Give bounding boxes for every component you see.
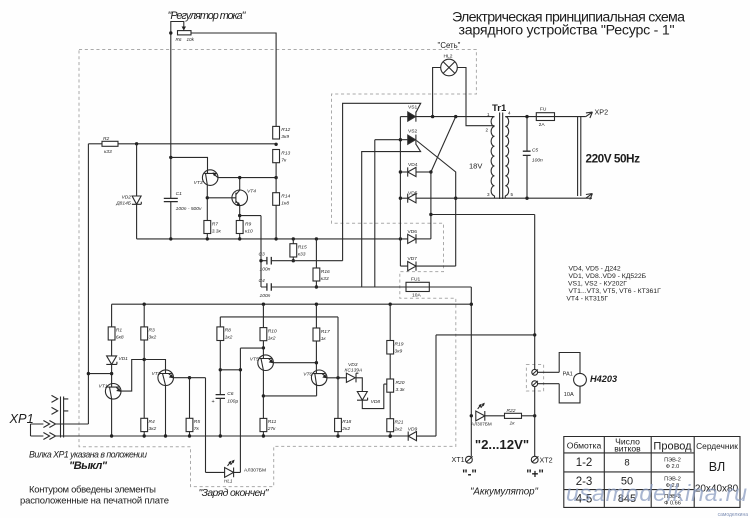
node anode col VD4 — [399, 170, 402, 173]
node VT3-R7-VT4base — [206, 196, 209, 199]
dashed connector box — [526, 365, 543, 392]
svg-text:100µ: 100µ — [227, 399, 238, 405]
transformer Tr1 core — [500, 113, 503, 200]
LED HL1 — [225, 468, 234, 478]
wire XT2 column lower — [534, 387, 536, 457]
svg-text:R20: R20 — [396, 380, 405, 386]
resistor R14 — [273, 193, 280, 206]
wire R8 top link — [220, 316, 338, 318]
svg-text:2к2: 2к2 — [394, 427, 403, 433]
svg-text:1к8: 1к8 — [281, 201, 289, 207]
plug XP1 pin3 arrow — [31, 421, 89, 428]
node R22 right — [533, 414, 536, 417]
svg-text:3.3к: 3.3к — [396, 387, 406, 393]
svg-text:VT1...VT3, VT5, VT6 - КТ361Г: VT1...VT3, VT5, VT6 - КТ361Г — [569, 288, 662, 295]
resistor R8 — [217, 327, 224, 341]
wire VT4 emitter down — [239, 206, 241, 221]
svg-text:R5: R5 — [194, 419, 201, 425]
node C3 left — [259, 259, 262, 262]
node pin1 diag — [454, 115, 457, 118]
node R2-VD2 — [135, 142, 138, 145]
bus junction dots — [143, 303, 146, 306]
terminal XT2 — [531, 456, 538, 463]
svg-text:10А: 10А — [564, 392, 574, 398]
plug XP1 pin1 arrow — [52, 395, 69, 402]
resistor R11 — [260, 418, 267, 431]
resistor R7 — [204, 221, 211, 234]
wire VS1 anode — [400, 116, 407, 118]
svg-text:2А: 2А — [539, 122, 546, 128]
node R16 bottom — [315, 285, 318, 288]
svg-text:3.3к: 3.3к — [212, 228, 222, 234]
svg-text:3к2: 3к2 — [149, 426, 157, 432]
svg-text:XT1: XT1 — [452, 455, 465, 464]
wire left drop x88 — [87, 144, 89, 424]
transistor VT4 — [232, 190, 248, 206]
svg-text:ВЛ: ВЛ — [709, 460, 725, 474]
svg-text:"Выкл": "Выкл" — [69, 460, 108, 472]
svg-text:Ф 2.0: Ф 2.0 — [666, 464, 680, 470]
node pot left — [169, 31, 172, 34]
svg-text:VT4: VT4 — [247, 188, 256, 194]
node pin3 col — [454, 197, 457, 200]
wire sense line — [436, 334, 535, 336]
resistor R15 — [290, 244, 297, 257]
transistor VT3 — [202, 170, 218, 186]
wire VT6 emitter loop — [263, 385, 316, 396]
plug XP1 pin2 arrow — [52, 407, 69, 414]
wire VT1 emitter — [111, 399, 113, 436]
wire FU1 right to output column — [429, 287, 471, 456]
svg-text:VD1, VD8..VD9 - КД522Б: VD1, VD8..VD9 - КД522Б — [569, 273, 647, 280]
svg-text:VT5: VT5 — [250, 356, 259, 362]
svg-text:HL2: HL2 — [444, 54, 453, 60]
svg-text:Д814Б: Д814Б — [115, 201, 132, 207]
svg-text:VD5: VD5 — [408, 190, 418, 196]
fuse FU — [536, 113, 554, 121]
winding table columns — [604, 437, 694, 508]
svg-text:VD4: VD4 — [408, 162, 418, 168]
wire pin1 to PA1 — [538, 371, 560, 373]
resistor R4 — [141, 418, 148, 431]
svg-text:R4: R4 — [149, 419, 156, 425]
wire mid rail — [137, 238, 408, 240]
wire VT4 emitter tap right — [240, 216, 261, 287]
svg-text:1к: 1к — [510, 421, 516, 427]
resistor R21 — [387, 419, 394, 432]
svg-text:VT2: VT2 — [152, 371, 161, 377]
svg-text:2к2: 2к2 — [341, 426, 350, 432]
svg-text:+: + — [212, 399, 215, 405]
terminal XT1 — [466, 456, 473, 463]
svg-text:R12: R12 — [281, 127, 290, 133]
svg-text:Провод: Провод — [653, 441, 692, 453]
resistor R3 — [141, 327, 148, 340]
node R8-C6 — [219, 368, 222, 371]
svg-text:R17: R17 — [321, 329, 330, 335]
diode VD4 — [408, 167, 416, 176]
node VS1 anode col top — [399, 138, 402, 141]
plug XP1 bars — [61, 397, 64, 438]
svg-text:5: 5 — [511, 192, 514, 197]
node VT5 emitter tap — [262, 394, 265, 397]
zener VD1 — [106, 356, 117, 365]
svg-text:1: 1 — [487, 112, 490, 117]
svg-text:8: 8 — [624, 458, 629, 469]
wire meter feed line — [431, 215, 535, 370]
wire R7 down — [206, 234, 208, 239]
svg-text:R16: R16 — [321, 269, 330, 275]
wire HL1 left feed — [190, 378, 225, 473]
node VT2 collector — [188, 376, 191, 379]
node VT4 collector — [238, 176, 241, 179]
svg-text:ХР1: ХР1 — [9, 411, 34, 426]
wire pin3 line — [416, 197, 592, 199]
svg-text:1-2: 1-2 — [576, 457, 593, 469]
resistor R9 — [236, 221, 243, 234]
svg-text:Обмотка: Обмотка — [567, 441, 602, 451]
wire VD3 to VD8 — [356, 378, 362, 392]
svg-text:R21: R21 — [395, 420, 404, 426]
wire R2 left — [88, 143, 102, 145]
svg-text:Контуром обведены элементы: Контуром обведены элементы — [29, 485, 156, 496]
svg-text:R15: R15 — [298, 245, 307, 251]
wire X diagonal VS2 to pin3 col — [417, 141, 456, 267]
resistor R10 — [260, 328, 267, 341]
svg-text:7к: 7к — [281, 157, 287, 163]
lamp HL2 — [441, 59, 458, 76]
svg-text:1к: 1к — [321, 336, 327, 342]
wire R18 column — [337, 317, 339, 419]
svg-text:18V: 18V — [469, 162, 482, 171]
svg-text:3к9: 3к9 — [395, 348, 403, 354]
capacitor C4 — [261, 286, 406, 288]
svg-text:самоделкина: самоделкина — [718, 512, 749, 518]
node R12-R13 — [274, 143, 277, 146]
transformer Tr1 left winding — [491, 117, 494, 196]
node x88 tap — [87, 372, 90, 375]
wire R20 to R21 — [389, 392, 391, 419]
node C1 top tap — [169, 156, 172, 159]
capacitor C5 — [526, 117, 528, 199]
wire pin5 segment — [495, 196, 506, 199]
svg-text:R13: R13 — [281, 150, 290, 156]
svg-text:R6: R6 — [176, 37, 182, 42]
node HL3 left — [470, 414, 473, 417]
plug XP1 pin4 arrow — [31, 433, 56, 440]
svg-text:27к: 27к — [267, 426, 276, 432]
svg-text:VD8: VD8 — [371, 399, 381, 405]
wire VT2 collector — [173, 377, 189, 379]
svg-text:R10: R10 — [268, 328, 277, 334]
node R15 bottom — [292, 259, 295, 262]
svg-text:"-": "-" — [462, 469, 477, 481]
wire R9 down — [239, 234, 241, 239]
diode VD9 — [408, 432, 416, 441]
wire R22 to XT2 column — [522, 415, 535, 417]
svg-text:расположенные на печатной плат: расположенные на печатной плате — [20, 496, 169, 507]
svg-text:100n: 100n — [260, 267, 271, 273]
transistor VT5 — [258, 355, 274, 371]
svg-text:Н4203: Н4203 — [590, 374, 617, 384]
wire VT3 collector right — [218, 177, 276, 179]
wire VS2 gate line — [362, 145, 421, 287]
resistor R22 — [505, 413, 522, 418]
svg-text:VS2: VS2 — [408, 128, 418, 134]
node VT1 base — [110, 372, 113, 375]
resistor R13 — [273, 150, 280, 163]
wire pot left below C1 — [170, 202, 172, 239]
svg-text:"+": "+" — [526, 469, 544, 481]
wire VS2 anode line — [375, 139, 408, 141]
wire VT2 base — [144, 360, 165, 371]
node VT4 emitter — [238, 214, 241, 217]
zener VD3 — [346, 373, 358, 382]
svg-text:VT4 - КТ315Г: VT4 - КТ315Г — [566, 296, 608, 303]
wire VT6 collector — [327, 377, 347, 379]
svg-text:6к8: 6к8 — [116, 335, 124, 341]
svg-text:к10: к10 — [245, 228, 253, 234]
wire bottom rail — [56, 435, 409, 437]
node HL2 left — [431, 115, 434, 118]
svg-text:3к9: 3к9 — [281, 134, 289, 140]
winding table rows — [564, 453, 694, 490]
wire pot right to R12 — [191, 33, 276, 126]
svg-text:7к: 7к — [194, 426, 200, 432]
resistor R16 — [313, 268, 320, 281]
svg-text:1к2: 1к2 — [268, 335, 276, 341]
node R13-R14 — [274, 176, 277, 179]
svg-text:VD1: VD1 — [118, 356, 128, 362]
svg-text:"Аккумулятор": "Аккумулятор" — [470, 487, 539, 498]
svg-text:АЛ307БМ: АЛ307БМ — [471, 421, 492, 426]
svg-text:"Заряд окончен": "Заряд окончен" — [199, 488, 270, 499]
node R3-R4-VT2base — [143, 358, 146, 361]
svg-text:VD2: VD2 — [121, 195, 131, 201]
svg-text:R18: R18 — [342, 419, 351, 425]
wire HL1 right feed — [234, 348, 264, 472]
wire VD6 cathode up — [416, 238, 431, 240]
wire plug link — [30, 424, 32, 436]
capacitor C6 — [216, 395, 225, 399]
resistor R12 — [273, 126, 280, 139]
svg-text:XT2: XT2 — [540, 455, 553, 464]
rail2 dots — [110, 434, 113, 437]
wire R2 right to R12-R13 node — [118, 143, 276, 145]
svg-text:Сердечник: Сердечник — [696, 441, 738, 451]
thyristor VS2 — [408, 135, 416, 144]
transformer Tr1 right winding — [505, 117, 508, 196]
ammeter PA1 — [559, 353, 580, 403]
svg-text:VS1, VS2 - КУ202Г: VS1, VS2 - КУ202Г — [568, 281, 627, 288]
svg-text:"Регулятор тока": "Регулятор тока" — [168, 10, 247, 22]
svg-text:C1: C1 — [176, 191, 183, 197]
node meter tap — [429, 213, 432, 216]
svg-text:витков: витков — [614, 444, 641, 454]
svg-text:VD9: VD9 — [408, 426, 418, 432]
svg-text:10k: 10k — [187, 37, 195, 42]
svg-text:usamodelkina.ru: usamodelkina.ru — [566, 480, 747, 506]
svg-text:"Сеть": "Сеть" — [438, 41, 461, 50]
diode VD7 — [408, 262, 416, 271]
svg-text:"2...12V": "2...12V" — [475, 437, 529, 452]
svg-text:100n: 100n — [260, 293, 271, 299]
wire pin1 line — [416, 116, 495, 118]
wire anode common column — [400, 117, 407, 267]
svg-text:10А: 10А — [412, 293, 421, 299]
wire base feed from x88 — [88, 373, 111, 375]
svg-text:Tr1: Tr1 — [492, 103, 507, 114]
svg-text:VD4, VD5 - Д242: VD4, VD5 - Д242 — [569, 266, 621, 273]
diode VD6 — [408, 234, 416, 243]
svg-text:R7: R7 — [212, 221, 219, 227]
svg-text:R1: R1 — [116, 328, 123, 334]
capacitor C3 — [261, 260, 343, 262]
wire HL2 right lead — [457, 68, 494, 126]
node C5 bottom — [525, 197, 528, 200]
svg-text:220V 50Hz: 220V 50Hz — [586, 151, 641, 165]
node HL1 col to C6 line — [239, 368, 242, 371]
svg-text:R22: R22 — [507, 408, 516, 414]
fuse FU1 — [406, 282, 429, 291]
node meter col mid — [533, 333, 536, 336]
wire HL3 to R22 — [485, 415, 505, 417]
wire VT5 collector — [273, 362, 316, 364]
LED HL3 — [476, 411, 485, 421]
wire HL2 left lead — [433, 68, 441, 117]
wire VD8 to R20 tap — [362, 384, 387, 409]
wire C6 tap — [220, 369, 240, 371]
wire VS1 gate line — [343, 103, 421, 260]
node R21 bottom — [389, 434, 392, 437]
zener VD2 — [136, 144, 138, 239]
connector pin 2 — [532, 381, 538, 387]
resistor R17 — [313, 328, 320, 341]
svg-text:к33: к33 — [321, 276, 329, 282]
wire VT2 emitter — [165, 385, 167, 436]
svg-text:VT1: VT1 — [99, 384, 108, 390]
wire pot left terminal down — [170, 33, 172, 198]
svg-text:C5: C5 — [532, 147, 539, 153]
node anode col VD5 — [399, 197, 402, 200]
svg-text:FU1: FU1 — [411, 276, 421, 282]
svg-text:C6: C6 — [227, 391, 234, 397]
svg-text:VD6: VD6 — [408, 229, 418, 235]
svg-text:3к2: 3к2 — [149, 335, 157, 341]
potentiometer R6 — [178, 31, 192, 35]
svg-text:R19: R19 — [395, 341, 404, 347]
wire VT3 emitter down — [206, 185, 208, 221]
svg-text:3: 3 — [487, 192, 490, 197]
plug arrow XP2 bottom — [586, 194, 593, 200]
svg-text:зарядного устройства "Ресурс -: зарядного устройства "Ресурс - 1" — [459, 23, 675, 39]
svg-text:КС139А: КС139А — [345, 368, 363, 374]
wire VD7 cathode to pin3 col — [416, 265, 456, 267]
node VT6-R18 — [336, 376, 339, 379]
svg-text:C4: C4 — [259, 278, 266, 284]
resistor R1 — [108, 327, 115, 340]
capacitor C1 — [164, 198, 178, 201]
svg-text:к33: к33 — [298, 252, 306, 258]
wire VD4 node column — [430, 172, 432, 239]
wire VT4 base — [207, 197, 232, 199]
wire VD4 left — [400, 171, 407, 173]
svg-text:FU: FU — [540, 107, 547, 113]
wire sense column x436 — [416, 335, 436, 436]
svg-text:Вилка ХР1 указана в положении: Вилка ХР1 указана в положении — [29, 450, 147, 460]
svg-text:R3: R3 — [149, 328, 156, 334]
transistor VT6 — [311, 370, 327, 386]
resistor R5 — [186, 418, 193, 431]
wire pin4 line — [505, 116, 586, 118]
svg-text:к33: к33 — [104, 149, 112, 155]
svg-text:VT3: VT3 — [194, 180, 203, 186]
svg-text:C3: C3 — [259, 252, 266, 258]
svg-text:R2: R2 — [103, 136, 110, 142]
resistor R18 — [335, 418, 342, 431]
wire VT1 collector — [121, 360, 144, 392]
transistor VT1 — [105, 384, 121, 400]
resistor R2 — [102, 141, 118, 146]
svg-text:HL1: HL1 — [224, 479, 233, 484]
svg-text:R14: R14 — [281, 194, 290, 200]
connector pin 1 — [532, 369, 538, 375]
svg-text:РА1: РА1 — [563, 371, 573, 377]
svg-text:R11: R11 — [268, 419, 277, 425]
svg-text:4: 4 — [508, 111, 511, 116]
svg-text:R8: R8 — [225, 328, 232, 334]
wire lower bus — [112, 303, 472, 305]
wire VT6 base — [315, 363, 317, 371]
transistor VT2 — [158, 370, 174, 386]
svg-text:VD3: VD3 — [348, 362, 358, 368]
wire VT3 base — [171, 157, 208, 170]
svg-text:100n: 100n — [532, 157, 543, 163]
thyristor VS1 — [408, 112, 416, 121]
svg-text:VT6: VT6 — [303, 372, 312, 378]
svg-text:2: 2 — [485, 128, 488, 133]
svg-text:VD7: VD7 — [408, 256, 418, 262]
plug arrow XP2 top — [586, 112, 593, 118]
svg-text:R9: R9 — [245, 221, 252, 227]
wire VT5 emitter col — [262, 370, 264, 418]
svg-text:1к2: 1к2 — [225, 335, 233, 341]
trimmer R20 — [387, 379, 394, 392]
wire pin2 to PA1 — [538, 383, 560, 385]
mains boundary double line — [578, 117, 581, 196]
svg-text:АЛ307БМ: АЛ307БМ — [244, 468, 266, 474]
node VD4-diagonal — [429, 170, 432, 173]
svg-text:VS1: VS1 — [408, 105, 418, 111]
svg-text:XP2: XP2 — [595, 108, 609, 117]
node C5 top — [525, 115, 528, 118]
wire R14 down — [275, 205, 277, 239]
wire VS2 anode feed column — [374, 140, 376, 287]
rail junction dots — [169, 237, 172, 240]
node bus right end — [470, 303, 473, 306]
node VT5-R17 — [315, 361, 318, 364]
wire VD5 left — [400, 197, 407, 199]
wire R13-R14 — [275, 163, 277, 193]
resistor R19 — [387, 341, 394, 355]
svg-text:100n - 500v: 100n - 500v — [176, 206, 202, 212]
wire VT4 collector up — [239, 178, 241, 190]
node VT5 base — [262, 346, 265, 349]
zener VD8 — [357, 392, 368, 401]
winding table frame — [564, 437, 740, 508]
wire X diagonal pin1 to VD4 node — [431, 117, 456, 172]
wire VD4 right — [416, 171, 431, 173]
